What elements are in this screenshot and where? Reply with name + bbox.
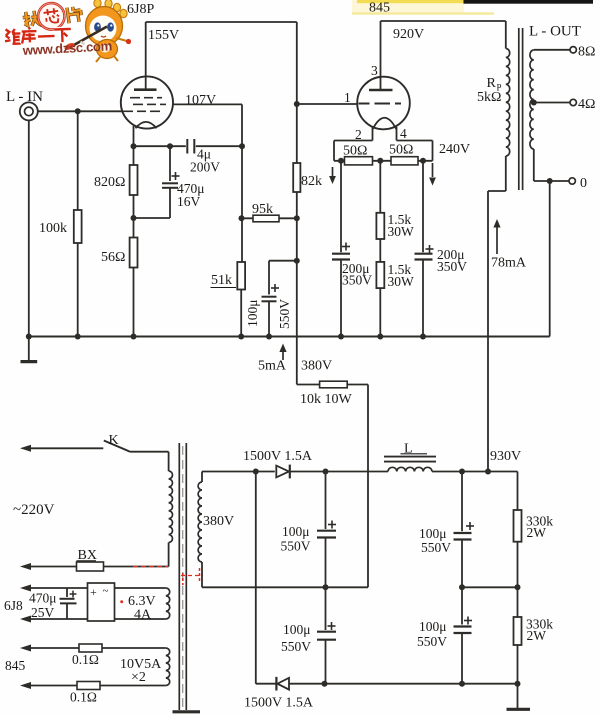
black bar top right (464, 0, 594, 4)
ground rail (29, 336, 550, 338)
label 6J8 (4, 598, 23, 613)
svg-text:6J8P: 6J8P (127, 2, 154, 17)
wire 0 to ground rail (549, 181, 551, 337)
svg-text:5kΩ: 5kΩ (477, 90, 501, 105)
label 470u 25V (29, 591, 57, 621)
svg-text:5mA: 5mA (258, 359, 287, 374)
label 5mA (258, 359, 287, 374)
svg-text:30W: 30W (388, 224, 415, 239)
wire D2 column (255, 472, 257, 684)
label 78mA (491, 256, 527, 271)
capacitor 470u 25V (60, 588, 77, 619)
wire coupling row (134, 145, 243, 147)
node 4ohm tap (531, 100, 537, 106)
resistor 0.1 lower (77, 682, 166, 690)
wire 845 fil top (20, 645, 79, 652)
resistor 82k (293, 163, 300, 261)
label 0 (580, 176, 587, 191)
rail nodes (26, 334, 426, 340)
capacitor 100u 550V cathode (262, 261, 297, 337)
label 155V (148, 28, 179, 43)
label 82k (301, 174, 322, 189)
label 845 (tube designator top) (369, 1, 390, 16)
label 95k (252, 202, 273, 217)
rail nodes 50ohm (338, 158, 426, 164)
wire winding to D1 (202, 469, 275, 475)
wire input to grid (38, 110, 123, 112)
label 1500V 1.5A top (243, 449, 313, 464)
label 6J8P (tube designator) (127, 2, 154, 17)
svg-text:550V: 550V (277, 299, 292, 329)
PT winding 380V (198, 472, 202, 588)
label 51k underlined (211, 273, 237, 288)
svg-text:50Ω: 50Ω (389, 143, 413, 158)
wire 10k to doubler mid (347, 385, 368, 588)
label 0.1 upper (72, 652, 99, 667)
node 0 tap (547, 178, 553, 184)
svg-text:100μ: 100μ (245, 300, 260, 328)
svg-text:380V: 380V (301, 359, 332, 374)
label L - OUT (529, 24, 581, 40)
node 845 grid junction (294, 101, 300, 107)
watermark dzsc.com mascot and text (5, 0, 132, 62)
label K (109, 433, 119, 448)
svg-text:4: 4 (400, 126, 407, 141)
wire 6.3V top right (115, 587, 166, 589)
svg-text:4A: 4A (134, 608, 152, 623)
label 100u 550V doubler lower (281, 622, 311, 654)
node 470u tap (167, 143, 173, 149)
label 1500V 1.5A bottom (244, 696, 314, 711)
label 380V node (301, 359, 332, 374)
OPT secondary winding (530, 50, 534, 181)
wire switch to primary (130, 452, 169, 471)
wire x242 drop to 95k node (239, 146, 245, 262)
svg-text:550V: 550V (281, 539, 311, 554)
tube 6J8P envelope (121, 76, 173, 128)
PT core ground bar (173, 710, 201, 713)
6J8P grid dashes row1 (130, 97, 162, 99)
label 380V winding (203, 514, 234, 529)
wire 845 plate lead (380, 21, 382, 90)
wire 845 fil bottom (20, 682, 77, 689)
svg-text:+: + (90, 585, 97, 599)
wire bottom rail left (256, 683, 277, 685)
label 10V5A x2 (120, 657, 162, 685)
label L - IN (6, 89, 43, 105)
OPT primary winding Rp (506, 49, 510, 157)
filament rail (334, 160, 433, 162)
wire filament stubs (334, 141, 433, 161)
845 filament dome (373, 118, 397, 130)
svg-text:470μ: 470μ (29, 591, 57, 606)
label 107V (185, 93, 216, 108)
wire cathode junction (131, 215, 171, 221)
svg-text:0.1Ω: 0.1Ω (72, 652, 99, 667)
label 56 (101, 250, 125, 265)
capacitor 100u 550V right upper (454, 472, 475, 588)
wire 8ohm tap (534, 49, 570, 51)
resistor 51k (237, 262, 245, 337)
label 50 right (389, 143, 413, 158)
label 1.5k 30W lower (388, 262, 415, 289)
svg-text:16V: 16V (177, 194, 201, 209)
wire 6.3V top (20, 585, 88, 592)
svg-text:920V: 920V (393, 27, 424, 42)
label 100u rotated (245, 300, 260, 328)
wire doubler mid rail (202, 584, 368, 590)
capacitor 100u 550V doubler lower (317, 587, 336, 683)
wire 845 grid line (297, 103, 358, 105)
svg-text:×2: ×2 (131, 670, 146, 685)
6J8P grid dashes row2 (133, 103, 166, 105)
resistor 330k 2W lower (514, 587, 522, 683)
arrow down left filament (329, 167, 336, 184)
resistor 0.1 upper (79, 644, 166, 652)
wire 107V plate line (173, 104, 242, 146)
svg-text:51k: 51k (211, 273, 232, 288)
label 16V (177, 194, 201, 209)
svg-text:8Ω: 8Ω (578, 45, 595, 60)
label 930V (490, 449, 521, 464)
terminal 0 (569, 178, 575, 184)
label 330k 2W lower (526, 617, 553, 644)
svg-text:R: R (487, 76, 497, 91)
label 10k 10W (300, 392, 353, 407)
6J8P grid dashes row3 (123, 110, 160, 112)
choke L core (384, 457, 436, 462)
svg-text:K: K (109, 433, 119, 448)
label 820 (94, 175, 125, 190)
svg-text:845: 845 (369, 1, 390, 16)
svg-text:100μ: 100μ (419, 526, 447, 541)
node input/100k (75, 108, 81, 114)
label 200u 350V left (342, 261, 372, 288)
svg-text:930V: 930V (490, 449, 521, 464)
input terminal L-IN (20, 102, 38, 120)
node filter cap top (323, 469, 329, 475)
resistor 1.5k 30W upper (376, 161, 384, 262)
wire 6.3V bottom (20, 616, 166, 623)
wire input ground side (28, 120, 30, 336)
resistor 330k 2W upper (514, 472, 522, 588)
PT primary winding 220V (169, 471, 173, 543)
label 100u 550V right upper (419, 526, 451, 555)
wire 6J8P plate lead (145, 22, 147, 90)
bottom rail nodes (322, 681, 521, 687)
switch K blade (104, 441, 130, 452)
label 550V rotated (277, 299, 292, 329)
wire OPT primary bottom (488, 156, 506, 472)
PT winding 6.3V 4A (166, 588, 170, 619)
label 100u 550V doubler upper (281, 524, 311, 554)
label 4u (197, 147, 211, 162)
capacitor 200u 350V right (415, 161, 434, 337)
node cathode cap junction (294, 258, 300, 264)
label 240V (439, 142, 470, 157)
ground symbol right (507, 684, 531, 710)
arrow down right filament (429, 163, 436, 186)
label 330k 2W upper (526, 514, 553, 541)
capacitor 4u 200V (187, 139, 194, 154)
capacitor 100u 550V right lower (454, 587, 473, 683)
svg-text:30W: 30W (388, 274, 415, 289)
svg-text:240V: 240V (439, 142, 470, 157)
arrow 5mA (279, 344, 286, 361)
yellow highlight band behind 845 label (352, 0, 494, 15)
label 50 left (343, 144, 367, 159)
svg-text:550V: 550V (421, 540, 451, 555)
svg-text:0: 0 (580, 176, 587, 191)
svg-text:820Ω: 820Ω (94, 175, 125, 190)
bridge plus tilde marks (90, 585, 109, 599)
svg-text:2W: 2W (527, 628, 547, 643)
label 470u (177, 181, 205, 196)
wire to OPT primary (505, 21, 507, 49)
terminal 4ohm (570, 99, 576, 105)
label Rp (487, 76, 502, 93)
svg-text:10k 10W: 10k 10W (300, 392, 353, 407)
svg-text:78mA: 78mA (491, 256, 527, 271)
svg-text:550V: 550V (417, 634, 447, 649)
label 200V (190, 160, 220, 175)
wire 4ohm tap (534, 102, 570, 104)
label L underlined (401, 442, 428, 457)
svg-text:155V: 155V (148, 28, 179, 43)
capacitor 200u 350V left (332, 161, 350, 337)
wire choke to 930V node (432, 469, 518, 475)
pin labels 1 2 3 4 (344, 63, 407, 142)
wire primary bottom (104, 543, 169, 567)
wire 380V riser x296 (296, 22, 298, 163)
resistor 50 right (391, 157, 418, 165)
label 4ohm (578, 97, 595, 112)
terminal 8ohm (570, 47, 576, 53)
diode D2 1500V 1.5A (276, 677, 517, 691)
svg-text:82k: 82k (301, 174, 322, 189)
svg-text:845: 845 (5, 658, 26, 673)
resistor 10k 10W (320, 381, 348, 388)
label 8ohm (578, 45, 595, 60)
wire right mid link (459, 584, 521, 590)
wire x296 through ground rail (296, 261, 298, 385)
svg-text:3: 3 (371, 63, 378, 78)
label 100u 550V right lower (417, 619, 447, 649)
svg-text:1500V 1.5A: 1500V 1.5A (243, 449, 313, 464)
resistor 100k (74, 111, 82, 336)
6J8P plate bar (134, 88, 157, 91)
6J8P cathode lead (133, 126, 135, 146)
svg-text:100μ: 100μ (282, 524, 310, 539)
label 100k (39, 221, 67, 236)
diode D1 1500V 1.5A (276, 465, 388, 479)
arrow 78mA (493, 219, 500, 254)
resistor 50 left (345, 157, 373, 165)
tube 845 envelope (357, 77, 410, 130)
choke L winding (388, 467, 432, 471)
label BX underlined (77, 548, 97, 563)
PT winding 10V5A (166, 648, 170, 686)
resistor 56 (130, 218, 138, 337)
svg-text:107V: 107V (185, 93, 216, 108)
wire 0 tap (534, 180, 569, 182)
svg-text:56Ω: 56Ω (101, 250, 125, 265)
fuse BX (20, 562, 104, 571)
svg-text:550V: 550V (281, 639, 311, 654)
label 920V (393, 27, 424, 42)
label ~220V (13, 502, 55, 518)
svg-text:2W: 2W (527, 525, 547, 540)
wire 155V: plate supply top (146, 21, 297, 23)
svg-text:~: ~ (103, 585, 109, 597)
svg-text:380V: 380V (203, 514, 234, 529)
svg-text:6J8: 6J8 (4, 598, 23, 613)
capacitor 100u 550V doubler upper (317, 472, 336, 588)
PT core (179, 443, 186, 710)
svg-text:100k: 100k (39, 221, 67, 236)
label 845 filament (5, 658, 26, 673)
svg-text:95k: 95k (252, 202, 273, 217)
svg-text:100μ: 100μ (283, 622, 311, 637)
svg-text:1: 1 (344, 90, 351, 105)
wire to 10k (297, 384, 320, 386)
resistor 820 (130, 146, 138, 218)
svg-text:~220V: ~220V (13, 502, 55, 518)
ground symbol left (21, 337, 38, 362)
label 6.3V 4A (128, 594, 156, 623)
svg-text:350V: 350V (437, 259, 467, 274)
node plate/cap (239, 143, 245, 149)
svg-text:200V: 200V (190, 160, 220, 175)
label 200u 350V right (437, 247, 467, 274)
svg-text:0.1Ω: 0.1Ω (70, 690, 97, 705)
svg-text:1500V 1.5A: 1500V 1.5A (244, 696, 314, 711)
svg-text:L - OUT: L - OUT (529, 24, 581, 40)
resistor 95k (242, 215, 300, 222)
wire 920V top (381, 20, 506, 22)
red artifact dashes (120, 567, 203, 604)
OPT core (519, 28, 523, 190)
label 0.1 lower (70, 690, 97, 705)
bridge rectifier box (88, 583, 115, 621)
svg-text:25V: 25V (31, 605, 55, 620)
node cathode row left (131, 143, 137, 149)
svg-text:100μ: 100μ (419, 619, 447, 634)
svg-text:350V: 350V (342, 273, 372, 288)
6J8P cathode dome (136, 122, 157, 128)
845 grid dashes (359, 103, 402, 105)
845 plate bar (369, 89, 393, 92)
switch K arrow (20, 445, 103, 452)
resistor 1.5k 30W lower (376, 262, 384, 337)
capacitor 470u 16V (162, 146, 180, 218)
svg-text:50Ω: 50Ω (343, 144, 367, 159)
label 1.5k 30W upper (388, 212, 415, 239)
label 5k (477, 90, 501, 105)
845 filament leads pins 2 4 (373, 127, 397, 141)
svg-text:4Ω: 4Ω (578, 97, 595, 112)
